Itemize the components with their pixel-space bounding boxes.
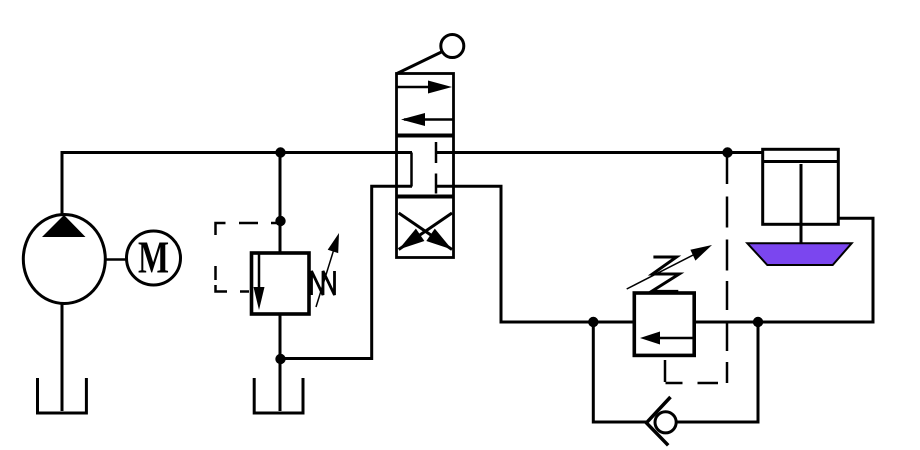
svg-text:M: M bbox=[138, 232, 169, 283]
